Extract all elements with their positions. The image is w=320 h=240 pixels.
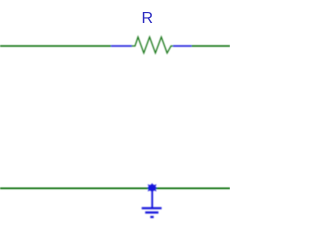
resistor R1 zigzag body [132,37,174,53]
ground symbol bar 3 [150,216,153,218]
label R value text [142,10,154,28]
resistor R1 left pin [111,45,132,47]
ground symbol bar 2 [145,211,158,213]
ground symbol bar 1 [142,207,162,209]
wire top-right net [192,45,231,47]
wire top-left net [0,45,111,47]
resistor R1 right pin [173,45,192,47]
wire bottom net [0,187,230,189]
ground stem wire [151,189,153,208]
junction node dot [147,183,157,193]
